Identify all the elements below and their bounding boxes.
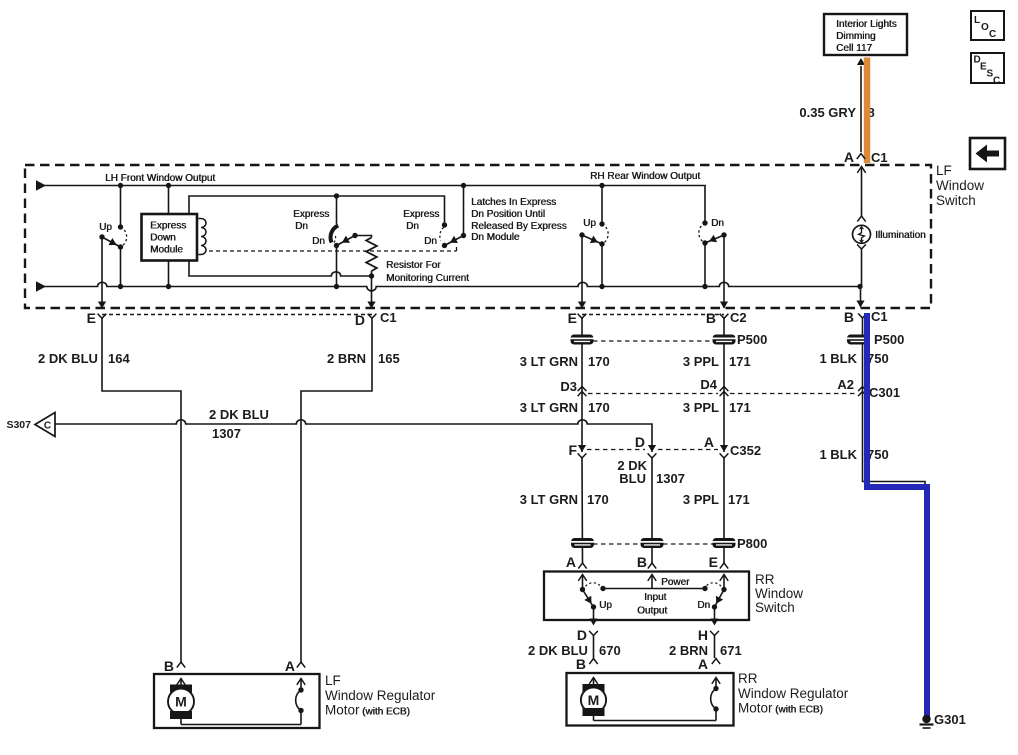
svg-text:C352: C352 xyxy=(730,443,761,458)
svg-text:3 PPL: 3 PPL xyxy=(683,354,719,369)
svg-text:3 PPL: 3 PPL xyxy=(683,400,719,415)
wire: dashed connector line C301 xyxy=(588,393,855,395)
svg-text:M: M xyxy=(175,694,187,710)
RR Up switch xyxy=(579,186,608,309)
svg-text:Express: Express xyxy=(403,209,439,220)
connector C1 pin A (top of LF window switch) xyxy=(844,149,888,165)
svg-text:Dn Module: Dn Module xyxy=(471,232,520,243)
wire: bottom bus with hop-overs xyxy=(36,281,860,291)
wire: PPL from C352 to P800 xyxy=(683,458,750,563)
svg-text:E: E xyxy=(709,554,718,570)
wire: LF motor internal bottom xyxy=(181,724,301,726)
connector pin A into RR motor xyxy=(698,656,720,672)
wire: 2 BRN 671 xyxy=(669,636,742,659)
svg-text:1 BLK: 1 BLK xyxy=(819,447,857,462)
svg-text:Dn Position Until: Dn Position Until xyxy=(471,209,545,220)
node: top bus junction dots xyxy=(118,183,123,188)
svg-text:Dn: Dn xyxy=(424,236,437,247)
svg-text:Module: Module xyxy=(150,245,183,256)
connector pin A into LF motor xyxy=(285,658,305,674)
svg-text:Monitoring Current: Monitoring Current xyxy=(386,273,469,284)
RR switch Dn contact xyxy=(697,575,728,626)
svg-text:D: D xyxy=(577,627,587,643)
svg-text:Up: Up xyxy=(99,222,112,233)
connector C352 pin F xyxy=(568,442,586,458)
LF window switch dashed box xyxy=(25,165,931,308)
label RR Window Switch xyxy=(755,572,803,615)
svg-text:C1: C1 xyxy=(871,150,888,165)
svg-text:D3: D3 xyxy=(560,379,577,394)
svg-text:LF: LF xyxy=(325,673,341,688)
connector C2 exit pin E xyxy=(568,302,587,327)
connector C2 exit pin B xyxy=(706,302,747,327)
svg-text:C: C xyxy=(44,421,51,432)
svg-text:1307: 1307 xyxy=(212,426,241,441)
svg-text:C1: C1 xyxy=(871,309,888,324)
svg-text:Dimming: Dimming xyxy=(836,31,875,42)
svg-text:Illumination: Illumination xyxy=(875,230,926,241)
svg-text:Motor: Motor xyxy=(738,701,773,716)
resistor for monitoring current xyxy=(366,238,469,309)
svg-text:750: 750 xyxy=(867,351,889,366)
svg-text:A: A xyxy=(566,554,576,570)
label RR Window Regulator Motor xyxy=(738,671,849,716)
svg-text:C: C xyxy=(993,76,1000,87)
RR switch internal power bus xyxy=(600,575,707,617)
connector exit pin D of RR switch xyxy=(577,627,598,643)
wire: 3 PPL 171 column xyxy=(683,318,751,452)
svg-text:(with ECB): (with ECB) xyxy=(362,707,410,718)
svg-text:171: 171 xyxy=(729,400,751,415)
ground G301 xyxy=(920,712,966,728)
svg-text:1 BLK: 1 BLK xyxy=(819,351,857,366)
svg-text:S307: S307 xyxy=(6,419,31,431)
svg-text:H: H xyxy=(698,627,708,643)
svg-text:3 LT GRN: 3 LT GRN xyxy=(520,400,578,415)
svg-text:Window Regulator: Window Regulator xyxy=(325,688,436,703)
svg-text:Window: Window xyxy=(755,586,803,601)
svg-text:750: 750 xyxy=(867,447,889,462)
splice S307 with triangle xyxy=(6,413,55,437)
svg-text:164: 164 xyxy=(108,351,130,366)
svg-text:B: B xyxy=(706,310,716,326)
svg-text:Up: Up xyxy=(599,600,612,611)
wire: top bus LH Front Window Output xyxy=(36,171,705,223)
node: bottom bus junction dots xyxy=(118,284,123,289)
svg-text:M: M xyxy=(588,692,600,708)
svg-text:(with ECB): (with ECB) xyxy=(775,705,823,716)
svg-text:Released By Express: Released By Express xyxy=(471,221,567,232)
svg-text:Input: Input xyxy=(644,592,666,603)
svg-text:A: A xyxy=(844,149,854,165)
svg-text:C: C xyxy=(989,29,996,40)
wire: DK BLU from C352 to P800 xyxy=(651,458,653,563)
back-arrow legend box xyxy=(970,138,1005,169)
express down module xyxy=(142,186,207,287)
svg-text:171: 171 xyxy=(728,492,750,507)
svg-text:170: 170 xyxy=(588,354,610,369)
svg-text:RR: RR xyxy=(755,572,775,587)
svg-text:E: E xyxy=(87,310,96,326)
svg-text:A: A xyxy=(698,656,708,672)
svg-text:671: 671 xyxy=(720,643,742,658)
connector C301 pin A2 xyxy=(837,377,900,400)
svg-text:B: B xyxy=(844,309,854,325)
svg-text:0.35 GRY: 0.35 GRY xyxy=(799,105,856,120)
svg-text:Down: Down xyxy=(150,233,176,244)
connector C1 (left) exit pin E xyxy=(87,302,107,327)
connector pin E into RR window switch xyxy=(709,554,729,570)
svg-text:Resistor For: Resistor For xyxy=(386,260,441,271)
svg-text:B: B xyxy=(164,658,174,674)
svg-text:Switch: Switch xyxy=(755,600,795,615)
svg-text:Window: Window xyxy=(936,178,984,193)
grommet P800 on DK BLU xyxy=(641,538,664,548)
grommet P500 on LT GRN xyxy=(571,335,594,345)
svg-text:G301: G301 xyxy=(934,712,966,727)
wire: dashed connector line C1 left xyxy=(102,314,372,316)
DESC legend box xyxy=(971,53,1004,87)
wire: 3 LT GRN 170 column xyxy=(520,318,610,452)
connector pin B into RR motor xyxy=(576,656,598,672)
LOC legend box xyxy=(971,11,1004,40)
svg-text:Dn: Dn xyxy=(697,600,710,611)
svg-text:BLU: BLU xyxy=(619,471,646,486)
coil on module right side xyxy=(199,219,207,255)
LF Up switch xyxy=(99,186,127,309)
grommet P500 on PPL xyxy=(713,335,736,345)
motor M (LF) xyxy=(168,679,194,725)
RR window switch box xyxy=(544,572,749,621)
svg-text:Dn: Dn xyxy=(711,218,724,229)
svg-text:LH Front Window Output: LH Front Window Output xyxy=(105,173,215,184)
svg-text:A2: A2 xyxy=(837,377,854,392)
svg-text:1307: 1307 xyxy=(656,471,685,486)
svg-text:Window Regulator: Window Regulator xyxy=(738,686,849,701)
svg-text:3 LT GRN: 3 LT GRN xyxy=(520,354,578,369)
express dn switch 1 xyxy=(293,196,372,287)
svg-text:165: 165 xyxy=(378,351,400,366)
wire: dashed line P500 xyxy=(593,340,712,342)
grommet P800 on LT GRN xyxy=(571,538,594,548)
svg-text:2 DK BLU: 2 DK BLU xyxy=(38,351,98,366)
svg-text:D: D xyxy=(635,434,645,450)
wire: dashed connector line C352 xyxy=(587,449,718,451)
svg-text:Output: Output xyxy=(637,606,667,617)
connector pin B into RR window switch xyxy=(637,554,656,570)
svg-text:P500: P500 xyxy=(737,332,767,347)
connector pin B into LF motor xyxy=(164,658,185,674)
svg-text:3 LT GRN: 3 LT GRN xyxy=(520,492,578,507)
wire: 2 DK BLU 164 from pin E down-left xyxy=(38,318,181,662)
svg-text:C301: C301 xyxy=(869,385,900,400)
wire: 2 DK BLU 670 xyxy=(528,636,621,659)
grommet P800 on PPL xyxy=(713,538,736,548)
wire: 2 DK BLU 1307 horizontal with hops xyxy=(55,407,652,452)
svg-text:Interior Lights: Interior Lights xyxy=(836,19,897,30)
connector exit pin H of RR switch xyxy=(698,627,719,643)
svg-text:Dn: Dn xyxy=(406,221,419,232)
svg-text:670: 670 xyxy=(599,643,621,658)
svg-text:P500: P500 xyxy=(874,332,904,347)
svg-text:2 BRN: 2 BRN xyxy=(327,351,366,366)
connector box: Interior Lights Dimming Cell 117 xyxy=(824,14,907,55)
svg-text:A: A xyxy=(704,434,714,450)
svg-text:C2: C2 xyxy=(730,310,747,325)
express dn switch 2 xyxy=(403,186,466,249)
svg-text:3 PPL: 3 PPL xyxy=(683,492,719,507)
svg-text:Cell 117: Cell 117 xyxy=(836,43,872,54)
connector C352 pin A xyxy=(704,434,761,458)
svg-text:RR: RR xyxy=(738,671,758,686)
svg-text:E: E xyxy=(568,310,577,326)
svg-text:D4: D4 xyxy=(700,377,717,392)
label LF Window Switch xyxy=(936,163,984,208)
wire: LT GRN from C352 to P800 xyxy=(520,458,609,563)
RR Dn switch xyxy=(699,218,727,308)
svg-text:Power: Power xyxy=(661,577,690,588)
svg-text:170: 170 xyxy=(588,400,610,415)
wire: blue highlight ground wire 750 xyxy=(867,313,927,717)
svg-text:Latches In Express: Latches In Express xyxy=(471,197,556,208)
illumination lamp xyxy=(853,167,926,308)
wire: dashed control line from module to express switches xyxy=(209,246,457,251)
connector C301 pin D4 xyxy=(700,377,728,396)
svg-text:O: O xyxy=(981,22,989,33)
connector pin A into RR window switch xyxy=(566,554,587,570)
svg-text:RH Rear Window Output: RH Rear Window Output xyxy=(590,171,700,182)
svg-text:Express: Express xyxy=(293,209,329,220)
label LF Window Regulator Motor xyxy=(325,673,436,718)
RR switch Up contact xyxy=(578,575,612,626)
svg-text:LF: LF xyxy=(936,163,952,178)
connector C1 (left) exit pin D xyxy=(355,302,397,329)
wire: orange highlight 0.35 GRY 8 xyxy=(864,58,871,164)
svg-text:C1: C1 xyxy=(380,310,397,325)
node: internal bus dots xyxy=(334,193,339,198)
wire: RR motor internal bottom xyxy=(594,720,717,722)
wire: 1 BLK 750 column (black line under blue highlight) xyxy=(819,318,925,712)
connector C301 pin D3 xyxy=(560,379,586,396)
svg-text:171: 171 xyxy=(729,354,751,369)
svg-text:Switch: Switch xyxy=(936,193,976,208)
svg-text:Dn: Dn xyxy=(295,221,308,232)
wire: GRY wire black line with up arrow xyxy=(857,58,865,152)
LF window regulator motor box xyxy=(154,674,320,728)
svg-text:2 DK BLU: 2 DK BLU xyxy=(209,407,269,422)
wire: internal bus from module xyxy=(189,196,445,276)
motor M (RR) xyxy=(581,678,606,721)
svg-text:170: 170 xyxy=(587,492,609,507)
svg-text:A: A xyxy=(285,658,295,674)
svg-text:P800: P800 xyxy=(737,536,767,551)
svg-text:Motor: Motor xyxy=(325,703,360,718)
wire: dashed line P800 xyxy=(593,543,713,545)
wire: dashed connector line C2 xyxy=(582,314,724,316)
grommet P500 on BLK xyxy=(847,335,870,345)
wire: 2 BRN 165 from pin D down xyxy=(301,318,400,662)
svg-text:F: F xyxy=(568,442,577,458)
circuit breaker ECB (LF) xyxy=(296,679,306,725)
svg-text:Dn: Dn xyxy=(312,236,325,247)
RR window regulator motor box xyxy=(567,673,734,726)
svg-text:B: B xyxy=(576,656,586,672)
svg-text:Express: Express xyxy=(150,221,186,232)
circuit breaker ECB (RR) xyxy=(711,678,721,721)
svg-text:B: B xyxy=(637,554,647,570)
svg-text:Up: Up xyxy=(583,218,596,229)
label 2 DK BLU 1307 below C352 xyxy=(617,458,685,486)
connector C352 pin D xyxy=(635,434,657,458)
note: latches in express dn position xyxy=(471,197,567,243)
svg-text:L: L xyxy=(974,15,980,26)
connector C1 (right) exit pin B xyxy=(844,301,888,326)
